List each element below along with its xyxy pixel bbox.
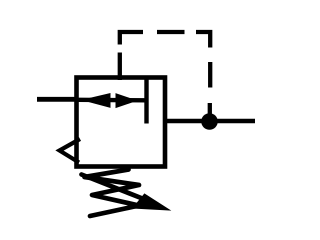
wire: flow path line inside body bbox=[78, 98, 147, 103]
pilot line dash: right vertical into node bbox=[208, 103, 212, 117]
pilot line dash: top middle bbox=[157, 30, 185, 34]
pilot line dash: right corner L bbox=[196, 32, 210, 48]
adjustment arrow shaft (diagonal through spring) bbox=[82, 175, 151, 202]
valve body (square) bbox=[77, 78, 166, 167]
pilot line dash: right vertical middle bbox=[208, 62, 212, 88]
spring (zigzag below body) bbox=[85, 170, 140, 217]
adjustment arrowhead bbox=[133, 194, 170, 210]
vent triangle (open, on left side of body) bbox=[60, 139, 81, 163]
arrowhead pointing left (reverse relief flow) bbox=[83, 94, 110, 108]
junction node (downstream pressure tap) bbox=[201, 113, 218, 130]
pilot line dash: left corner L bbox=[120, 32, 143, 45]
arrowhead pointing right (forward flow) bbox=[116, 94, 136, 108]
wire: outlet line (right port) bbox=[165, 119, 255, 124]
pilot line dash: corner up from valve top bbox=[118, 53, 122, 81]
wire: inlet line (left port) bbox=[37, 97, 78, 102]
internal seat line (vertical) bbox=[144, 77, 148, 124]
